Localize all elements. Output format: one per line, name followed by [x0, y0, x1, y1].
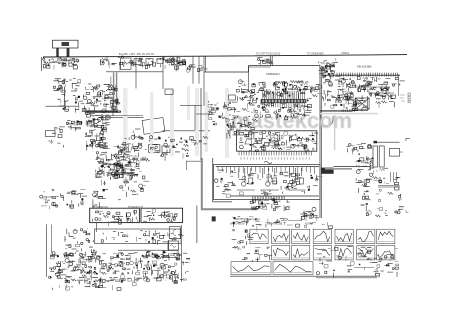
H-out long wire	[163, 130, 211, 132]
step wire to video block	[204, 66, 248, 72]
opto feedback parts	[66, 121, 82, 132]
power transformer vertical wire	[64, 87, 66, 107]
small dark connector box	[212, 216, 216, 221]
standby transformer parts	[53, 79, 80, 93]
small boxes row K1	[186, 65, 208, 73]
CRT labels row2	[266, 218, 288, 226]
squiggle in stack box	[170, 245, 176, 248]
table top mini text	[234, 222, 333, 231]
audio amp left column	[319, 58, 341, 83]
T301 transformer crossed box	[355, 98, 369, 109]
inner regulator box	[95, 229, 182, 244]
page mark	[406, 210, 408, 212]
waveform row2 left marks	[232, 246, 272, 262]
wire drop x163	[162, 58, 164, 90]
chopper primary cluster	[83, 84, 120, 116]
wire y105.7	[180, 105, 202, 107]
svg-text:W101-W108: W101-W108	[230, 222, 245, 226]
supply row box2	[134, 59, 141, 65]
block left edge	[248, 66, 250, 92]
left column lower	[118, 129, 150, 200]
svg-text:21: 21	[400, 150, 404, 154]
audio out bar	[378, 186, 400, 188]
feedback column	[64, 228, 97, 256]
inner regulator internals	[101, 231, 184, 245]
degauss wire y250.2	[118, 249, 164, 251]
wire drop x136	[135, 58, 137, 89]
speaker loop wire	[321, 112, 333, 126]
C451 C452 tall capacitors	[373, 142, 400, 167]
left drop wire	[196, 206, 198, 244]
power labels row	[53, 280, 137, 291]
watermark streaks	[123, 86, 229, 158]
svg-text:CN301: CN301	[341, 51, 350, 55]
right mid small row	[347, 144, 356, 155]
sound IF wire	[354, 86, 390, 88]
left rail vertical wire	[41, 57, 43, 71]
heater line y115.5	[90, 115, 143, 117]
bottom right wire	[354, 267, 374, 269]
vertical trio wires	[391, 172, 397, 182]
RGB output amplifiers Q901-Q903	[237, 168, 255, 190]
CRT board connector hatch	[253, 196, 285, 200]
right lower cluster	[356, 168, 404, 217]
right mid cluster	[355, 144, 374, 171]
sync sep lower	[227, 124, 239, 139]
bridge rectifier drop wires	[100, 56, 117, 68]
H-drive cluster	[149, 136, 189, 161]
IF output wire	[398, 75, 400, 96]
wire pair drop x270.8	[271, 56, 273, 66]
CN801 box	[121, 58, 132, 69]
CRT drive lead stubs	[218, 167, 315, 174]
regulator block box1	[90, 208, 140, 222]
box T402	[162, 146, 171, 153]
video/chroma block outline top and right	[249, 66, 321, 218]
small box node	[165, 89, 173, 95]
svg-text:POWER(2/2): POWER(2/2)	[128, 205, 143, 209]
thick dark flyback bar	[86, 110, 118, 112]
AFC cluster	[40, 190, 87, 210]
supply rail component row	[118, 56, 185, 72]
tuner AGC parts	[357, 84, 375, 92]
chroma left parts	[236, 80, 266, 118]
chroma right-top parts	[307, 84, 322, 101]
luminance delay squiggle	[264, 162, 272, 164]
box2 regulator internals	[143, 209, 178, 223]
wire drop x177	[176, 57, 178, 71]
vertical-out dense area b	[95, 144, 139, 178]
RGB section bottom rail	[230, 195, 319, 197]
wire x195	[194, 105, 196, 130]
watermark medium text	[231, 108, 352, 133]
wire drop x199	[198, 57, 200, 84]
power dense band	[49, 252, 190, 284]
stub below box1	[96, 223, 98, 232]
svg-text:POWER(1/2): POWER(1/2)	[93, 205, 108, 209]
IC501 bottom pins	[239, 151, 312, 155]
svg-text:TA8690AN: TA8690AN	[266, 72, 279, 76]
IC201 upper pin leads	[263, 91, 305, 99]
regulator block box2	[141, 208, 183, 222]
waveform chart table	[230, 229, 395, 278]
IC201 lower pin leads	[263, 103, 305, 108]
degauss stub up	[168, 240, 170, 251]
RGB section top rail	[216, 166, 319, 168]
RGB section border	[214, 165, 321, 200]
box1 regulator internals	[92, 210, 137, 226]
waveform right marks	[316, 247, 398, 278]
AC line wires (thick) from plug to bus	[58, 48, 69, 57]
svg-text:TO SPEAKER: TO SPEAKER	[307, 51, 324, 55]
audio comb components	[337, 77, 405, 101]
small box sync sep	[229, 95, 236, 100]
gray vertical pair to flyback	[114, 73, 117, 111]
lower stack box	[168, 241, 179, 250]
vertical-out dense area a	[85, 113, 110, 150]
H-drive right stubs	[190, 136, 208, 145]
sound IF right parts	[375, 90, 395, 108]
audio lower column	[323, 79, 358, 111]
CN402 connector dashes	[400, 93, 410, 103]
supply voltage labels above bus	[119, 51, 350, 56]
bottom right sparse marks	[358, 250, 399, 261]
svg-text:B+115V +15V -15V 9V 16V: B+115V +15V -15V 9V 16V 5V	[119, 52, 155, 56]
double wire drop x204.5	[203, 57, 205, 107]
main B+ horizontal bus	[43, 55, 407, 57]
left rail of power block	[45, 224, 47, 277]
scan fold light bar	[320, 113, 378, 115]
chroma above-pin parts	[262, 80, 308, 99]
chroma below parts	[260, 103, 311, 120]
C shape in relay box	[173, 230, 176, 236]
AC input / degaussing coil box	[53, 40, 79, 48]
audio section bottom hatch	[320, 110, 368, 111]
ground wire horizontal	[46, 105, 80, 107]
RGB drive small parts	[214, 170, 236, 197]
second routing wire	[213, 158, 232, 202]
snubber parts	[58, 94, 87, 113]
CRT labels row	[232, 217, 259, 226]
right rail of power block	[180, 225, 182, 282]
sync parts mid	[237, 117, 258, 135]
corner mark	[406, 138, 410, 141]
error amp sparse	[48, 127, 71, 148]
wire drop x193	[192, 57, 194, 84]
heater wire	[99, 117, 144, 119]
sync sep cluster	[208, 101, 242, 127]
IC501 deflection processor box	[237, 131, 317, 151]
labels above blocks	[93, 205, 143, 209]
chroma top-right wire	[288, 89, 320, 91]
video in cluster	[257, 58, 273, 65]
X-ray protect parts	[92, 189, 108, 208]
focus divider parts	[300, 207, 319, 221]
small box L501	[46, 131, 56, 137]
light vertical x334.5	[334, 115, 335, 150]
CRT bus to right	[334, 166, 370, 168]
wire y114	[196, 113, 209, 115]
ABL parts	[97, 162, 130, 185]
H-shift wire vertical	[200, 88, 202, 160]
CRT label underline marks	[240, 219, 302, 221]
EW correction parts	[104, 157, 145, 179]
svg-text:TO CRT PCB CN102: TO CRT PCB CN102	[256, 52, 281, 56]
audio box right edge	[367, 96, 369, 110]
thick CRT routing wire	[202, 158, 258, 209]
CRT socket dark box	[321, 168, 333, 174]
degauss relay box	[163, 251, 178, 258]
step wire left	[106, 71, 163, 73]
RGB mid parts	[239, 172, 323, 195]
IC501 pin number ticks	[241, 157, 309, 159]
IC201 chroma/jungle hatched body	[261, 99, 306, 102]
degauss small parts	[144, 250, 178, 260]
audio driver parts	[346, 98, 367, 112]
supply row box3	[146, 59, 153, 65]
audio hatch ticks	[342, 109, 355, 112]
svg-text:KB-1013BA: KB-1013BA	[357, 65, 372, 69]
fuse and line filter parts	[43, 57, 79, 69]
supply row box4	[157, 59, 163, 64]
deflection yoke tilted box	[142, 118, 165, 135]
dark blob C451	[374, 141, 378, 144]
outer corner wire	[186, 161, 201, 170]
driver box T401	[149, 145, 160, 153]
waveform table heading	[230, 222, 312, 226]
CRT board lower parts	[250, 199, 289, 211]
CN301 multi-pin bus comb	[322, 73, 400, 77]
comb of decoupling caps	[160, 57, 186, 66]
relay box	[170, 227, 181, 239]
waveform row1 left marks	[232, 230, 254, 245]
jungle internals	[239, 131, 318, 154]
